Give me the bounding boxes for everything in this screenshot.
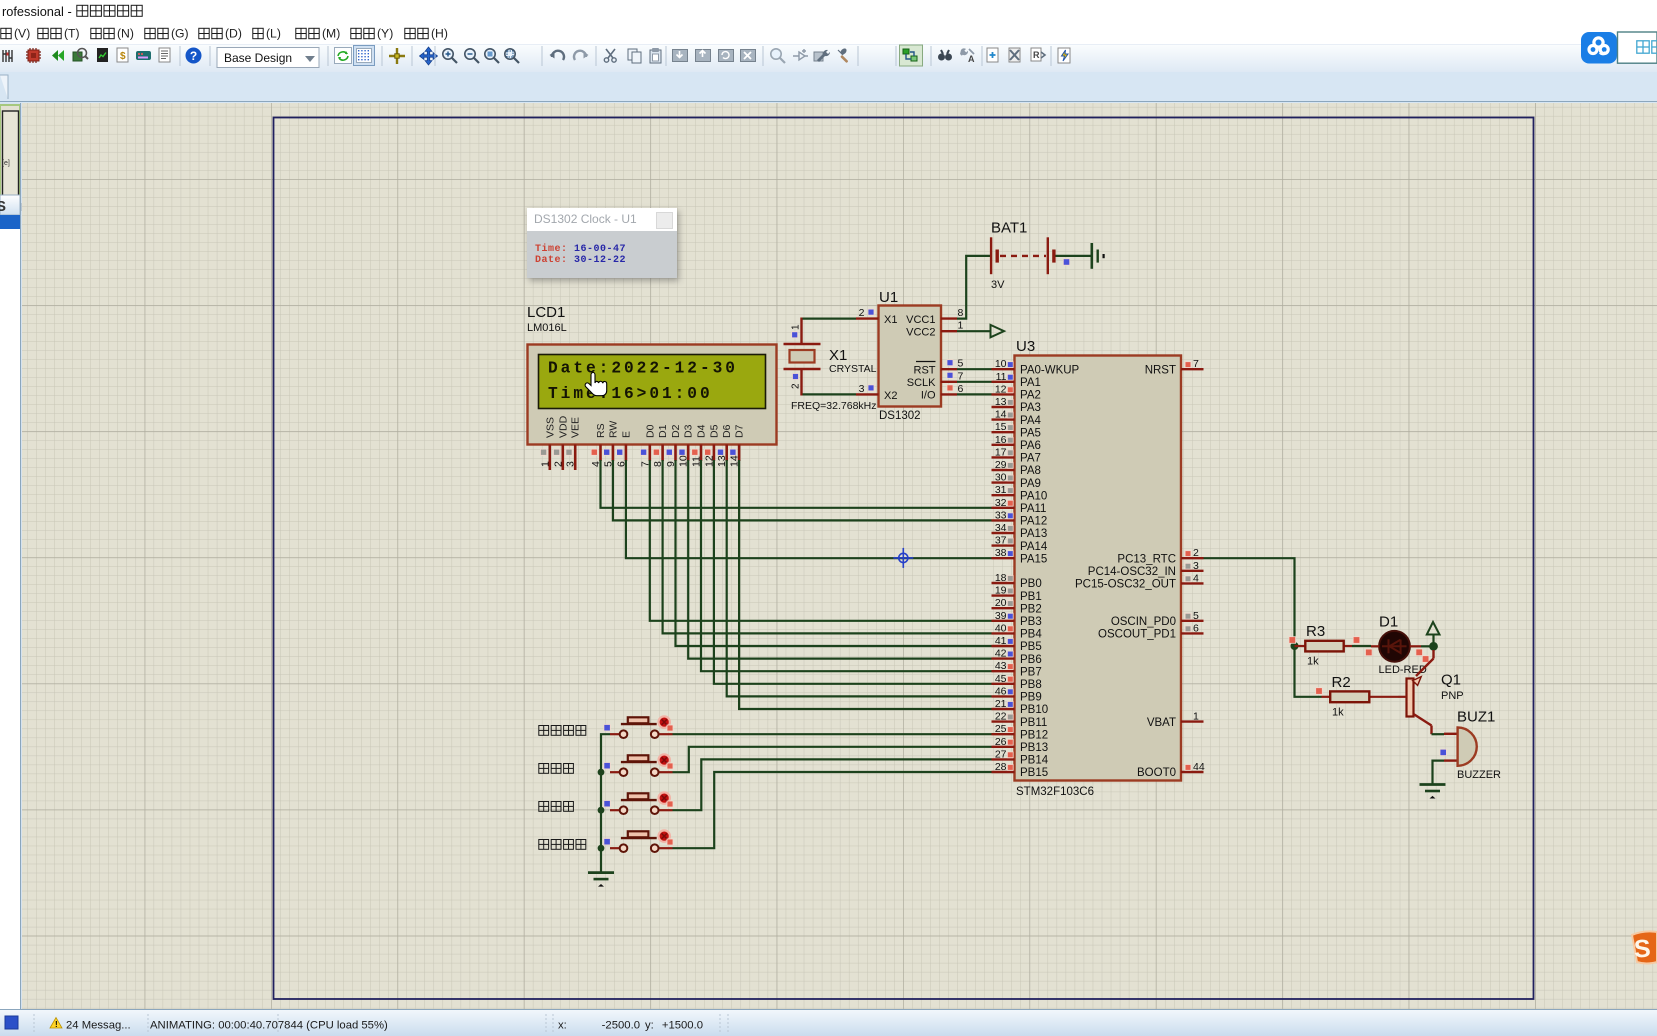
svg-text:2: 2 [552,461,564,467]
state indicator on BAT1 wire [1063,259,1069,265]
svg-text:PB13: PB13 [1020,742,1048,754]
baidu netdisk floating widget [1580,30,1657,66]
svg-text:LM016L: LM016L [527,322,567,334]
svg-text:D3: D3 [683,424,695,438]
ground below buttons [588,873,614,887]
svg-text:13: 13 [995,396,1007,408]
svg-text:27: 27 [995,748,1007,760]
svg-text:8: 8 [958,307,964,319]
svg-text:CRYSTAL: CRYSTAL [829,363,877,375]
state indicator near R2 [1316,688,1323,695]
svg-text:(M): (M) [322,27,340,41]
wire button3 to U3.PB14 [673,759,992,810]
svg-text:(D): (D) [225,27,242,41]
svg-text:DS1302: DS1302 [879,410,921,422]
wire R3 to D1 [1352,645,1371,647]
svg-text:43: 43 [995,660,1007,672]
svg-text:15: 15 [995,421,1007,433]
crystal X1 32.768kHz [784,318,877,413]
svg-text:PA9: PA9 [1020,478,1041,490]
svg-text:PA12: PA12 [1020,516,1047,528]
svg-text:PB6: PB6 [1020,654,1042,666]
svg-text:3: 3 [859,383,865,395]
svg-text:2: 2 [859,307,865,319]
svg-text:PA0-WKUP: PA0-WKUP [1020,364,1080,376]
svg-text:2: 2 [1193,547,1199,559]
window chrome svg: title, menu, toolbar, tabstrip [0,0,1657,103]
LED D1 LED-RED [1371,614,1427,677]
svg-text:E: E [620,431,632,438]
svg-text:40: 40 [995,622,1007,634]
svg-text:BUZ1: BUZ1 [1457,709,1495,726]
wire BAT1 to ground [1056,255,1092,257]
U3 right pins NRST PC13 PC14 PC15 OSC VBAT BOOT0 [1075,358,1205,779]
svg-text:3: 3 [565,461,577,467]
svg-text:PA15: PA15 [1020,553,1047,565]
svg-text:28: 28 [995,761,1007,773]
svg-text:BOOT0: BOOT0 [1137,767,1176,779]
svg-text:PB11: PB11 [1020,717,1047,729]
svg-text:5: 5 [958,358,964,370]
svg-text:37: 37 [995,535,1007,547]
wire LCD D3->PB6 [688,460,991,659]
junction on button bus y=772.2 [598,769,605,776]
svg-text:R2: R2 [1332,674,1351,691]
ground at BAT1 [1092,243,1104,269]
svg-text:VBAT: VBAT [1147,717,1176,729]
svg-text:11: 11 [996,371,1007,383]
svg-text:(N): (N) [117,27,134,41]
svg-text:VEE: VEE [570,417,582,438]
svg-text:21: 21 [995,698,1007,710]
power terminal above D1 node [1427,622,1440,642]
battery BAT1 3V [991,220,1054,292]
svg-text:31: 31 [995,484,1007,496]
mouse hand cursor [585,372,607,395]
wire U3.PC13 to R3 node [1204,558,1295,646]
svg-text:!: ! [55,1020,58,1029]
svg-text:PB15: PB15 [1020,767,1048,779]
svg-text:44: 44 [1193,761,1205,773]
svg-text:X2: X2 [884,390,897,402]
buzzer BUZ1 [1440,709,1501,782]
push button 3 [539,792,673,814]
schematic sheet border [274,118,1534,1000]
svg-text:Q1: Q1 [1441,672,1461,689]
svg-text:PA4: PA4 [1020,415,1041,427]
svg-text:$: $ [120,51,126,62]
wire U1.VCC2 to power arrow [957,330,990,332]
svg-text:PA6: PA6 [1020,440,1041,452]
junction on button bus y=810.2 [598,807,605,814]
svg-text:D2: D2 [670,424,682,438]
svg-text:-2500.0: -2500.0 [602,1020,640,1032]
svg-text:D0: D0 [644,424,656,438]
svg-text:(G): (G) [171,27,189,41]
svg-text:PB0: PB0 [1020,578,1042,590]
svg-text:(T): (T) [64,27,80,41]
svg-text:16: 16 [995,434,1007,446]
svg-text:ANIMATING: 00:00:40.707844 (CP: ANIMATING: 00:00:40.707844 (CPU load 55%… [150,1020,388,1032]
LCD display LCD1 LM016L [527,304,777,445]
svg-text:34: 34 [995,522,1007,534]
svg-text:PB7: PB7 [1020,666,1042,678]
svg-text:STM32F103C6: STM32F103C6 [1016,786,1094,798]
status bar [0,1009,1657,1036]
state indicators near R3 [1289,637,1372,656]
wire LCD RS->PA11 [601,460,992,508]
svg-text:PC15-OSC32_OUT: PC15-OSC32_OUT [1075,579,1176,591]
svg-text:FREQ=32.768kHz: FREQ=32.768kHz [791,400,877,412]
svg-text:(H): (H) [431,27,448,41]
transistor Q1 PNP [1407,650,1464,734]
svg-text:RST: RST [914,364,936,376]
svg-text:41: 41 [995,635,1007,647]
svg-text:(V): (V) [14,27,30,41]
svg-text:(L): (L) [266,27,281,41]
svg-text:20: 20 [995,597,1007,609]
LCD1 pins 1-14 with state indicators [539,445,740,471]
svg-text:29: 29 [995,459,1007,471]
wire X1 pin2 to U1.X2 [803,393,857,395]
junction at D1 right node [1429,642,1438,651]
svg-text:6: 6 [958,383,964,395]
svg-text:(Y): (Y) [377,27,393,41]
svg-text:7: 7 [958,370,964,382]
svg-text:46: 46 [995,685,1007,697]
svg-text:S: S [0,198,6,215]
wire LCD D0->PB3 [650,460,992,621]
wire U1.SCLK to U3.PA1 [957,381,992,383]
svg-text:PB5: PB5 [1020,641,1042,653]
svg-text:22: 22 [995,711,1007,723]
svg-text:NRST: NRST [1145,364,1176,376]
svg-text:PB14: PB14 [1020,755,1049,767]
svg-text:1: 1 [1193,711,1199,723]
svg-text:18: 18 [995,572,1007,584]
svg-text:?: ? [190,49,197,63]
svg-text:Time:16>01:00: Time:16>01:00 [548,385,713,403]
wire LCD D4->PB7 [701,460,992,671]
svg-text:1k: 1k [1307,656,1319,668]
push button 4 [539,830,673,852]
svg-text:PA5: PA5 [1020,427,1041,439]
svg-text:1: 1 [791,324,802,330]
svg-text:5: 5 [1193,610,1199,622]
svg-text:4: 4 [1193,572,1199,584]
svg-text:X1: X1 [884,314,897,326]
svg-text:7: 7 [1193,358,1199,370]
DS1302 popup window [527,208,677,278]
wire LCD D1->PB4 [663,460,992,633]
svg-text:25: 25 [995,723,1007,735]
svg-text:D1: D1 [1379,614,1398,631]
svg-text:PB10: PB10 [1020,704,1048,716]
svg-text:D6: D6 [721,424,733,438]
svg-text:R3: R3 [1306,623,1325,640]
svg-text:D4: D4 [696,424,708,438]
svg-text:12: 12 [995,383,1007,395]
svg-text:17: 17 [995,446,1007,458]
wire LCD E->PA15 [626,460,992,558]
svg-text:24 Messag...: 24 Messag... [66,1020,131,1032]
svg-text:D1: D1 [657,424,669,438]
wire LCD RW->PA12 [613,460,992,520]
svg-text:2: 2 [791,383,802,389]
svg-text:PA10: PA10 [1020,490,1047,502]
wire button1 to U3.PB12 [673,733,992,735]
svg-text:PA2: PA2 [1020,390,1041,402]
wire LCD D5->PB8 [714,460,992,684]
wire D1 to node [1421,645,1434,647]
svg-text:Date:2022-12-30: Date:2022-12-30 [548,360,738,378]
svg-text:PB9: PB9 [1020,692,1042,704]
svg-text:BAT1: BAT1 [991,220,1027,237]
power terminal at U1.VCC2 [991,325,1005,337]
wire U1.IO to U3.PA2 [957,393,992,395]
svg-text:PB4: PB4 [1020,629,1042,641]
svg-text:y:: y: [645,1020,654,1032]
svg-text:U3: U3 [1016,338,1035,355]
svg-text:I/O: I/O [921,390,936,402]
svg-text:38: 38 [995,547,1007,559]
svg-text:rofessional -: rofessional - [2,4,72,19]
svg-text:42: 42 [995,648,1007,660]
push button 2 [539,754,673,776]
svg-text:45: 45 [995,673,1007,685]
svg-text:SCLK: SCLK [907,377,936,389]
svg-text:x:: x: [558,1020,567,1032]
svg-text:OSCIN_PD0: OSCIN_PD0 [1111,616,1176,628]
svg-text:PA14: PA14 [1020,541,1048,553]
svg-text:PC14-OSC32_IN: PC14-OSC32_IN [1088,566,1176,578]
svg-text:26: 26 [995,736,1007,748]
junction at R3 left node [1291,642,1299,650]
svg-text:U1: U1 [879,289,898,306]
svg-text:RW: RW [607,421,619,438]
state indicators near D1 [1416,649,1429,662]
wire LCD D7->PB10 [739,460,991,709]
svg-text:PA13: PA13 [1020,528,1047,540]
wire button common bus to ground [601,734,610,872]
wire X1 pin1 to U1.X1 [803,318,857,320]
wire LCD D6->PB9 [727,460,992,696]
svg-text:PA8: PA8 [1020,465,1041,477]
svg-text:PA3: PA3 [1020,402,1041,414]
watermark logo bottom right [1630,929,1657,969]
svg-text:33: 33 [995,509,1007,521]
wire R2 to Q1 base [1398,696,1407,698]
svg-text:D7: D7 [734,424,746,438]
svg-text:PB3: PB3 [1020,616,1042,628]
wire LCD D2->PB5 [676,460,992,646]
resistor R2 1k [1322,674,1399,719]
left object selector sidebar [0,103,22,1009]
svg-text:PC13_RTC: PC13_RTC [1117,553,1176,565]
selection crosshair cursor [893,548,913,568]
svg-text:S: S [1633,935,1651,964]
svg-text:VCC2: VCC2 [906,326,935,338]
wire button2 to U3.PB13 [673,747,992,772]
svg-text:10: 10 [995,358,1007,370]
svg-text:PB2: PB2 [1020,603,1042,615]
microcontroller U3 STM32F103C6 body [1015,338,1182,798]
svg-text:OSCOUT_PD1: OSCOUT_PD1 [1098,629,1176,641]
svg-text:VSS: VSS [544,417,556,438]
svg-text:3V: 3V [991,279,1005,291]
svg-text:PB12: PB12 [1020,729,1048,741]
svg-text:3: 3 [1193,560,1199,572]
svg-text:Base Design: Base Design [224,51,292,65]
svg-text:PB1: PB1 [1020,591,1042,603]
svg-text:LCD1: LCD1 [527,304,565,321]
svg-text:VCC1: VCC1 [906,314,935,326]
svg-text:19: 19 [995,585,1007,597]
svg-text:D5: D5 [708,424,720,438]
svg-text:1: 1 [958,320,964,332]
junction on button bus y=848.2 [598,845,605,852]
svg-text:LED-RED: LED-RED [1379,664,1427,676]
svg-text:32: 32 [995,497,1007,509]
svg-text:R: R [1033,50,1040,60]
svg-text:PB8: PB8 [1020,679,1042,691]
wire button4 to U3.PB15 [673,772,992,848]
wire U1.VCC1 to BAT1 [957,256,991,319]
svg-text:14: 14 [995,409,1007,421]
U3 left pins PA0-PA15 PB0-PB15 [992,358,1080,779]
svg-text:RS: RS [595,423,607,438]
svg-text:PNP: PNP [1441,690,1464,702]
wire Q1 collector to BUZ1 [1432,733,1445,735]
svg-text:+1500.0: +1500.0 [662,1020,703,1032]
svg-text:6: 6 [1193,622,1199,634]
svg-text:A: A [968,54,975,64]
resistor R3 1k [1295,623,1353,668]
DS1302 RTC U1 [856,289,964,422]
svg-text:30: 30 [995,472,1007,484]
svg-text:VDD: VDD [557,415,569,438]
svg-text:1k: 1k [1332,707,1344,719]
svg-text:PA7: PA7 [1020,453,1041,465]
ground below BUZ1 [1420,785,1446,799]
wire BUZ1 to ground [1433,761,1445,785]
push button 1 [539,716,673,738]
svg-text:PA11: PA11 [1020,503,1046,515]
svg-text:PA1: PA1 [1020,377,1041,389]
svg-text:X1: X1 [829,347,847,364]
svg-text:BUZZER: BUZZER [1457,769,1501,781]
svg-text:39: 39 [995,610,1007,622]
svg-text:[e]: [e] [2,160,10,167]
wire U1.RST to U3.PA0 [957,368,992,370]
wire R3 node down to R2 [1295,646,1322,697]
svg-text:1: 1 [539,461,551,467]
